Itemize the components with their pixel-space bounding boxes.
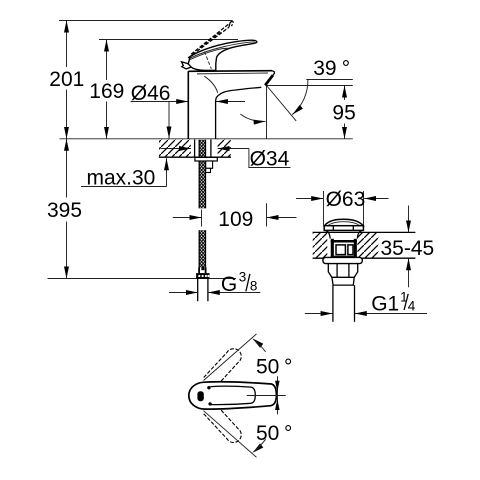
svg-text:G: G: [221, 273, 237, 296]
svg-text:201: 201: [49, 68, 84, 91]
svg-text:109: 109: [218, 208, 253, 231]
svg-text:169: 169: [89, 80, 124, 103]
svg-text:8: 8: [250, 279, 258, 294]
svg-text:395: 395: [47, 199, 82, 222]
svg-text:G1: G1: [371, 293, 399, 316]
svg-text:max.30: max.30: [87, 166, 156, 189]
svg-text:Ø34: Ø34: [250, 148, 290, 171]
svg-text:50: 50: [256, 356, 279, 379]
svg-text:95: 95: [332, 101, 355, 124]
svg-text:°: °: [284, 422, 292, 445]
svg-text:Ø63: Ø63: [326, 188, 366, 211]
svg-text:35-45: 35-45: [381, 237, 435, 260]
svg-text:°: °: [342, 57, 350, 80]
svg-text:°: °: [284, 356, 292, 379]
svg-text:4: 4: [408, 298, 416, 313]
svg-text:3: 3: [239, 270, 247, 285]
svg-text:50: 50: [256, 422, 279, 445]
svg-text:39: 39: [313, 57, 336, 80]
